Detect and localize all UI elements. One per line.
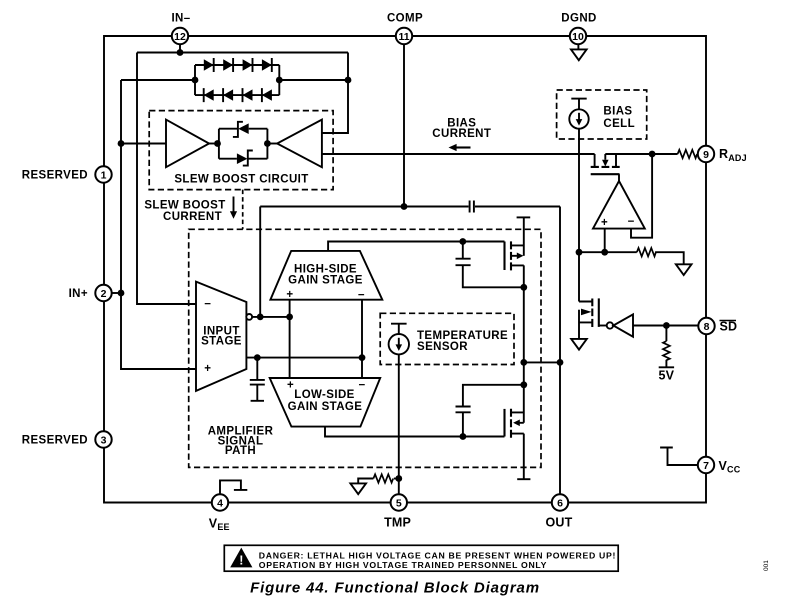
arrow slew boost current [230, 197, 237, 219]
wire diode string right lead [279, 79, 348, 81]
node bias opamp plus b [601, 249, 608, 256]
wire comp horizontal left [260, 206, 468, 208]
svg-text:+: + [601, 217, 608, 229]
svg-text:5: 5 [396, 497, 402, 509]
wire pin10 dgnd stem [577, 44, 579, 49]
wire pin2 lead [112, 292, 122, 294]
temperature sensor box [380, 313, 514, 364]
pin 2 [95, 285, 111, 301]
wire OUT vertical x=560 [559, 207, 561, 495]
wire out node horizontal [524, 361, 560, 363]
mosfet M1 bias [595, 154, 616, 166]
wire minus leads high/low side x=362 [361, 300, 363, 378]
svg-text:SLEW BOOST: SLEW BOOST [144, 199, 225, 211]
svg-text:−: − [358, 289, 365, 301]
wire opamp minus feedback [631, 154, 652, 238]
pin 5 [391, 494, 407, 510]
wire outer border frame [104, 36, 706, 503]
svg-text:GAIN STAGE: GAIN STAGE [288, 401, 363, 413]
current source I2 temperature [389, 324, 409, 355]
wire IN- left drop x=137 to input stage minus [137, 53, 196, 305]
resistor R2 opamp plus [637, 248, 656, 256]
svg-text:5V: 5V [658, 369, 674, 383]
wire bias mosfet gate lead to opamp [618, 174, 620, 181]
zener pair frame [219, 129, 268, 159]
diode D6 [223, 89, 233, 100]
node diode left [192, 77, 199, 84]
current source I1 bias cell [569, 99, 588, 129]
wire miller cap bottom return [463, 265, 524, 287]
svg-text:4: 4 [217, 497, 223, 509]
node zener left [214, 140, 221, 147]
node feedback cap [254, 354, 261, 361]
diode D4 [262, 59, 272, 70]
node radj feedback [649, 151, 656, 158]
svg-text:9: 9 [703, 149, 709, 161]
capacitor C2 below input stage [250, 380, 265, 385]
pin 10 [570, 28, 586, 44]
arrow m3 bulk [517, 253, 524, 260]
svg-text:SD: SD [720, 320, 738, 334]
svg-text:OUT: OUT [546, 516, 573, 530]
wire slew right amp input [267, 143, 277, 145]
wire feedback y=357.6 [246, 357, 362, 359]
svg-text:8: 8 [704, 321, 710, 333]
svg-text:+: + [286, 289, 293, 301]
svg-text:SENSOR: SENSOR [417, 341, 468, 353]
node comp [401, 203, 408, 210]
wire pin11 COMP stem [403, 44, 405, 207]
svg-text:COMP: COMP [387, 13, 423, 25]
input stage output bubble [246, 314, 252, 320]
resistor R3 5v pulldown [663, 341, 670, 360]
node in+ [118, 290, 125, 297]
diode string D1-D8 [195, 65, 279, 95]
arrow m1 bulk [602, 160, 609, 167]
zener Z1 [233, 122, 249, 137]
node slew input [118, 140, 125, 147]
wire mosfet m3 drain [523, 217, 525, 255]
node miller top [459, 238, 466, 245]
pin 3 [95, 431, 111, 447]
wire diode box frame [195, 65, 279, 95]
node input stage out b [286, 314, 293, 321]
svg-text:+: + [287, 379, 294, 391]
svg-text:11: 11 [398, 31, 409, 43]
svg-text:BIAS: BIAS [603, 106, 632, 118]
diode bars top row [214, 58, 272, 72]
op-amp U4 [593, 181, 645, 229]
zener Z2 [237, 151, 253, 166]
svg-text:CELL: CELL [603, 118, 635, 130]
pin 11 [396, 28, 412, 44]
wire miller cap top lead [462, 242, 464, 259]
ground dgnd pin10 [571, 49, 587, 60]
dashed slew boost current drop [242, 190, 244, 230]
wire inverter input to pin8 [633, 325, 699, 327]
ground m2 source [571, 339, 587, 350]
pin 8 [698, 318, 714, 334]
ground opamp resistor [676, 264, 692, 275]
svg-text:!: ! [239, 554, 243, 568]
capacitor C4 miller bottom [456, 407, 471, 413]
node m4 gate cap [460, 433, 467, 440]
mosfet M3 top output [505, 241, 512, 270]
wire vee stub [220, 480, 247, 494]
svg-text:CURRENT: CURRENT [432, 128, 491, 140]
wire IN+ vertical x=121 [121, 80, 196, 369]
capacitor C1 comp [470, 201, 474, 213]
svg-text:2: 2 [101, 288, 107, 300]
svg-text:−: − [204, 298, 211, 310]
wire vcc stub [660, 448, 698, 466]
wire m3 drain T-bar [517, 216, 531, 218]
wire slew boost input [121, 143, 166, 145]
wire bottom cap top return [463, 385, 524, 406]
wire temp sensor lead to pin5 [398, 354, 400, 494]
pin 4 [212, 494, 228, 510]
pin 9 [698, 146, 714, 162]
warning box [224, 545, 618, 571]
diode D8 [262, 89, 272, 100]
mosfet M2 shutdown [592, 298, 599, 327]
mosfet M4 bottom output [505, 409, 512, 438]
amplifier A1 left slew buffer [166, 120, 209, 168]
pin 6 [552, 494, 568, 510]
diode D7 [243, 89, 253, 100]
svg-text:PATH: PATH [225, 445, 256, 457]
wire high side output to gate y=241.5 [328, 242, 504, 251]
node tmp resistor [395, 475, 402, 482]
svg-text:−: − [358, 380, 365, 392]
node zener right [264, 140, 271, 147]
wire sd mosfet source to ground [578, 310, 580, 339]
wire pin12 stem to node [179, 44, 181, 53]
svg-text:STAGE: STAGE [201, 335, 242, 347]
overline SD [720, 320, 737, 322]
svg-text:SLEW BOOST CIRCUIT: SLEW BOOST CIRCUIT [174, 173, 308, 185]
pin 1 [95, 166, 111, 182]
arrow inside bias current source [576, 119, 583, 126]
svg-text:12: 12 [174, 31, 186, 43]
wire radj resistor to pin9 [696, 153, 699, 155]
arrow bias current [449, 144, 471, 151]
svg-text:IN+: IN+ [69, 288, 88, 300]
arrow m4 bulk [513, 420, 520, 427]
wire cap bottom stub [251, 385, 264, 401]
wire IN- horizontal y=52.5 [137, 52, 348, 54]
svg-text:RESERVED: RESERVED [22, 170, 88, 182]
svg-text:Figure 44. Functional Block Di: Figure 44. Functional Block Diagram [250, 580, 540, 597]
wire tmp resistor right lead [394, 478, 399, 480]
wire m4 source T-bar [517, 478, 530, 480]
high side gain stage U2 [270, 251, 382, 300]
wire opamp plus node y=252.2 [579, 251, 637, 253]
svg-text:1: 1 [101, 169, 107, 181]
svg-text:−: − [628, 216, 635, 228]
wire m4 source [523, 434, 525, 480]
node m3 source cap [520, 284, 527, 291]
resistor R4 tmp [373, 474, 393, 482]
node diode right [276, 77, 283, 84]
node m4 drain cap [520, 381, 527, 388]
svg-text:+: + [204, 363, 211, 375]
amplifier A2 right slew buffer [277, 120, 322, 168]
wire input stage output riser x=260.2 [259, 207, 261, 317]
wire plus leads high/low side x=289.6 [289, 300, 291, 378]
diode D3 [243, 59, 253, 70]
warning triangle icon [230, 548, 252, 568]
wire slew left amp output [209, 143, 219, 145]
svg-text:DGND: DGND [561, 13, 596, 25]
svg-text:6: 6 [557, 497, 563, 509]
arrow inside temp current source [396, 344, 403, 351]
ground tmp [350, 483, 366, 494]
resistor R1 radj [678, 150, 698, 158]
wire 5v resistor bottom stub [659, 360, 674, 368]
svg-text:OPERATION BY HIGH VOLTAGE TRAI: OPERATION BY HIGH VOLTAGE TRAINED PERSON… [259, 560, 547, 570]
wire 5v resistor top lead [665, 326, 667, 342]
amplifier signal path box [189, 229, 541, 467]
wire opamp plus resistor to ground [655, 252, 684, 264]
svg-text:DANGER: LETHAL HIGH VOLTAGE CA: DANGER: LETHAL HIGH VOLTAGE CAN BE PRESE… [259, 550, 616, 560]
slew boost circuit box [149, 111, 333, 190]
wire bias cell stem top [578, 99, 580, 110]
wire sd mosfet gate to inverter bubble [599, 325, 607, 327]
node bias opamp plus a [576, 249, 583, 256]
node feedback minus [359, 354, 366, 361]
diode bars bottom row [204, 88, 262, 102]
wire diode string left lead [121, 79, 195, 81]
svg-text:001: 001 [763, 560, 770, 571]
svg-text:IN–: IN– [171, 13, 190, 25]
pin 12 [172, 28, 188, 44]
node sd inverter resistor [663, 322, 670, 329]
wire low side output to gate y=436.5 [325, 427, 505, 437]
svg-text:GAIN STAGE: GAIN STAGE [288, 274, 363, 286]
inverter U5 [607, 314, 633, 336]
wire tmp resistor left lead to ground [358, 479, 373, 484]
bias cell box [557, 90, 647, 139]
wire bottom cap bottom lead [462, 412, 464, 437]
wire radj right segment [605, 153, 677, 155]
wire IN- right drop x=348 to slew amp upper input [322, 53, 348, 134]
node out a [520, 359, 527, 366]
svg-text:7: 7 [703, 460, 709, 472]
wire comp horizontal right of cap [475, 206, 560, 208]
svg-text:TMP: TMP [384, 516, 411, 530]
diode D5 [204, 89, 214, 100]
node diode right top [345, 77, 352, 84]
diode D1 [204, 59, 214, 70]
svg-text:CURRENT: CURRENT [163, 211, 222, 223]
input stage U1 [196, 282, 252, 391]
wire opamp plus input lead [604, 229, 606, 253]
capacitor C3 miller top [456, 259, 471, 266]
svg-text:LOW-SIDE: LOW-SIDE [294, 389, 354, 401]
arrow m2 bulk [581, 309, 592, 316]
svg-text:3: 3 [101, 434, 107, 446]
svg-text:10: 10 [572, 31, 584, 43]
diode D2 [223, 59, 233, 70]
pin 7 [698, 457, 714, 473]
low side gain stage U3 [270, 378, 381, 427]
svg-text:RESERVED: RESERVED [22, 435, 88, 447]
PINS [95, 28, 714, 511]
node out b [557, 359, 564, 366]
node pin12 junction [177, 49, 184, 56]
wire slew lower tap to bias mosfet [322, 153, 595, 155]
wire cap tap below input stage [256, 358, 258, 380]
node input stage out a [257, 314, 264, 321]
wire mosfet node vertical x=523.8 [523, 265, 525, 422]
wire bias vertical [578, 129, 580, 302]
wire input stage output to high side plus [252, 316, 289, 318]
